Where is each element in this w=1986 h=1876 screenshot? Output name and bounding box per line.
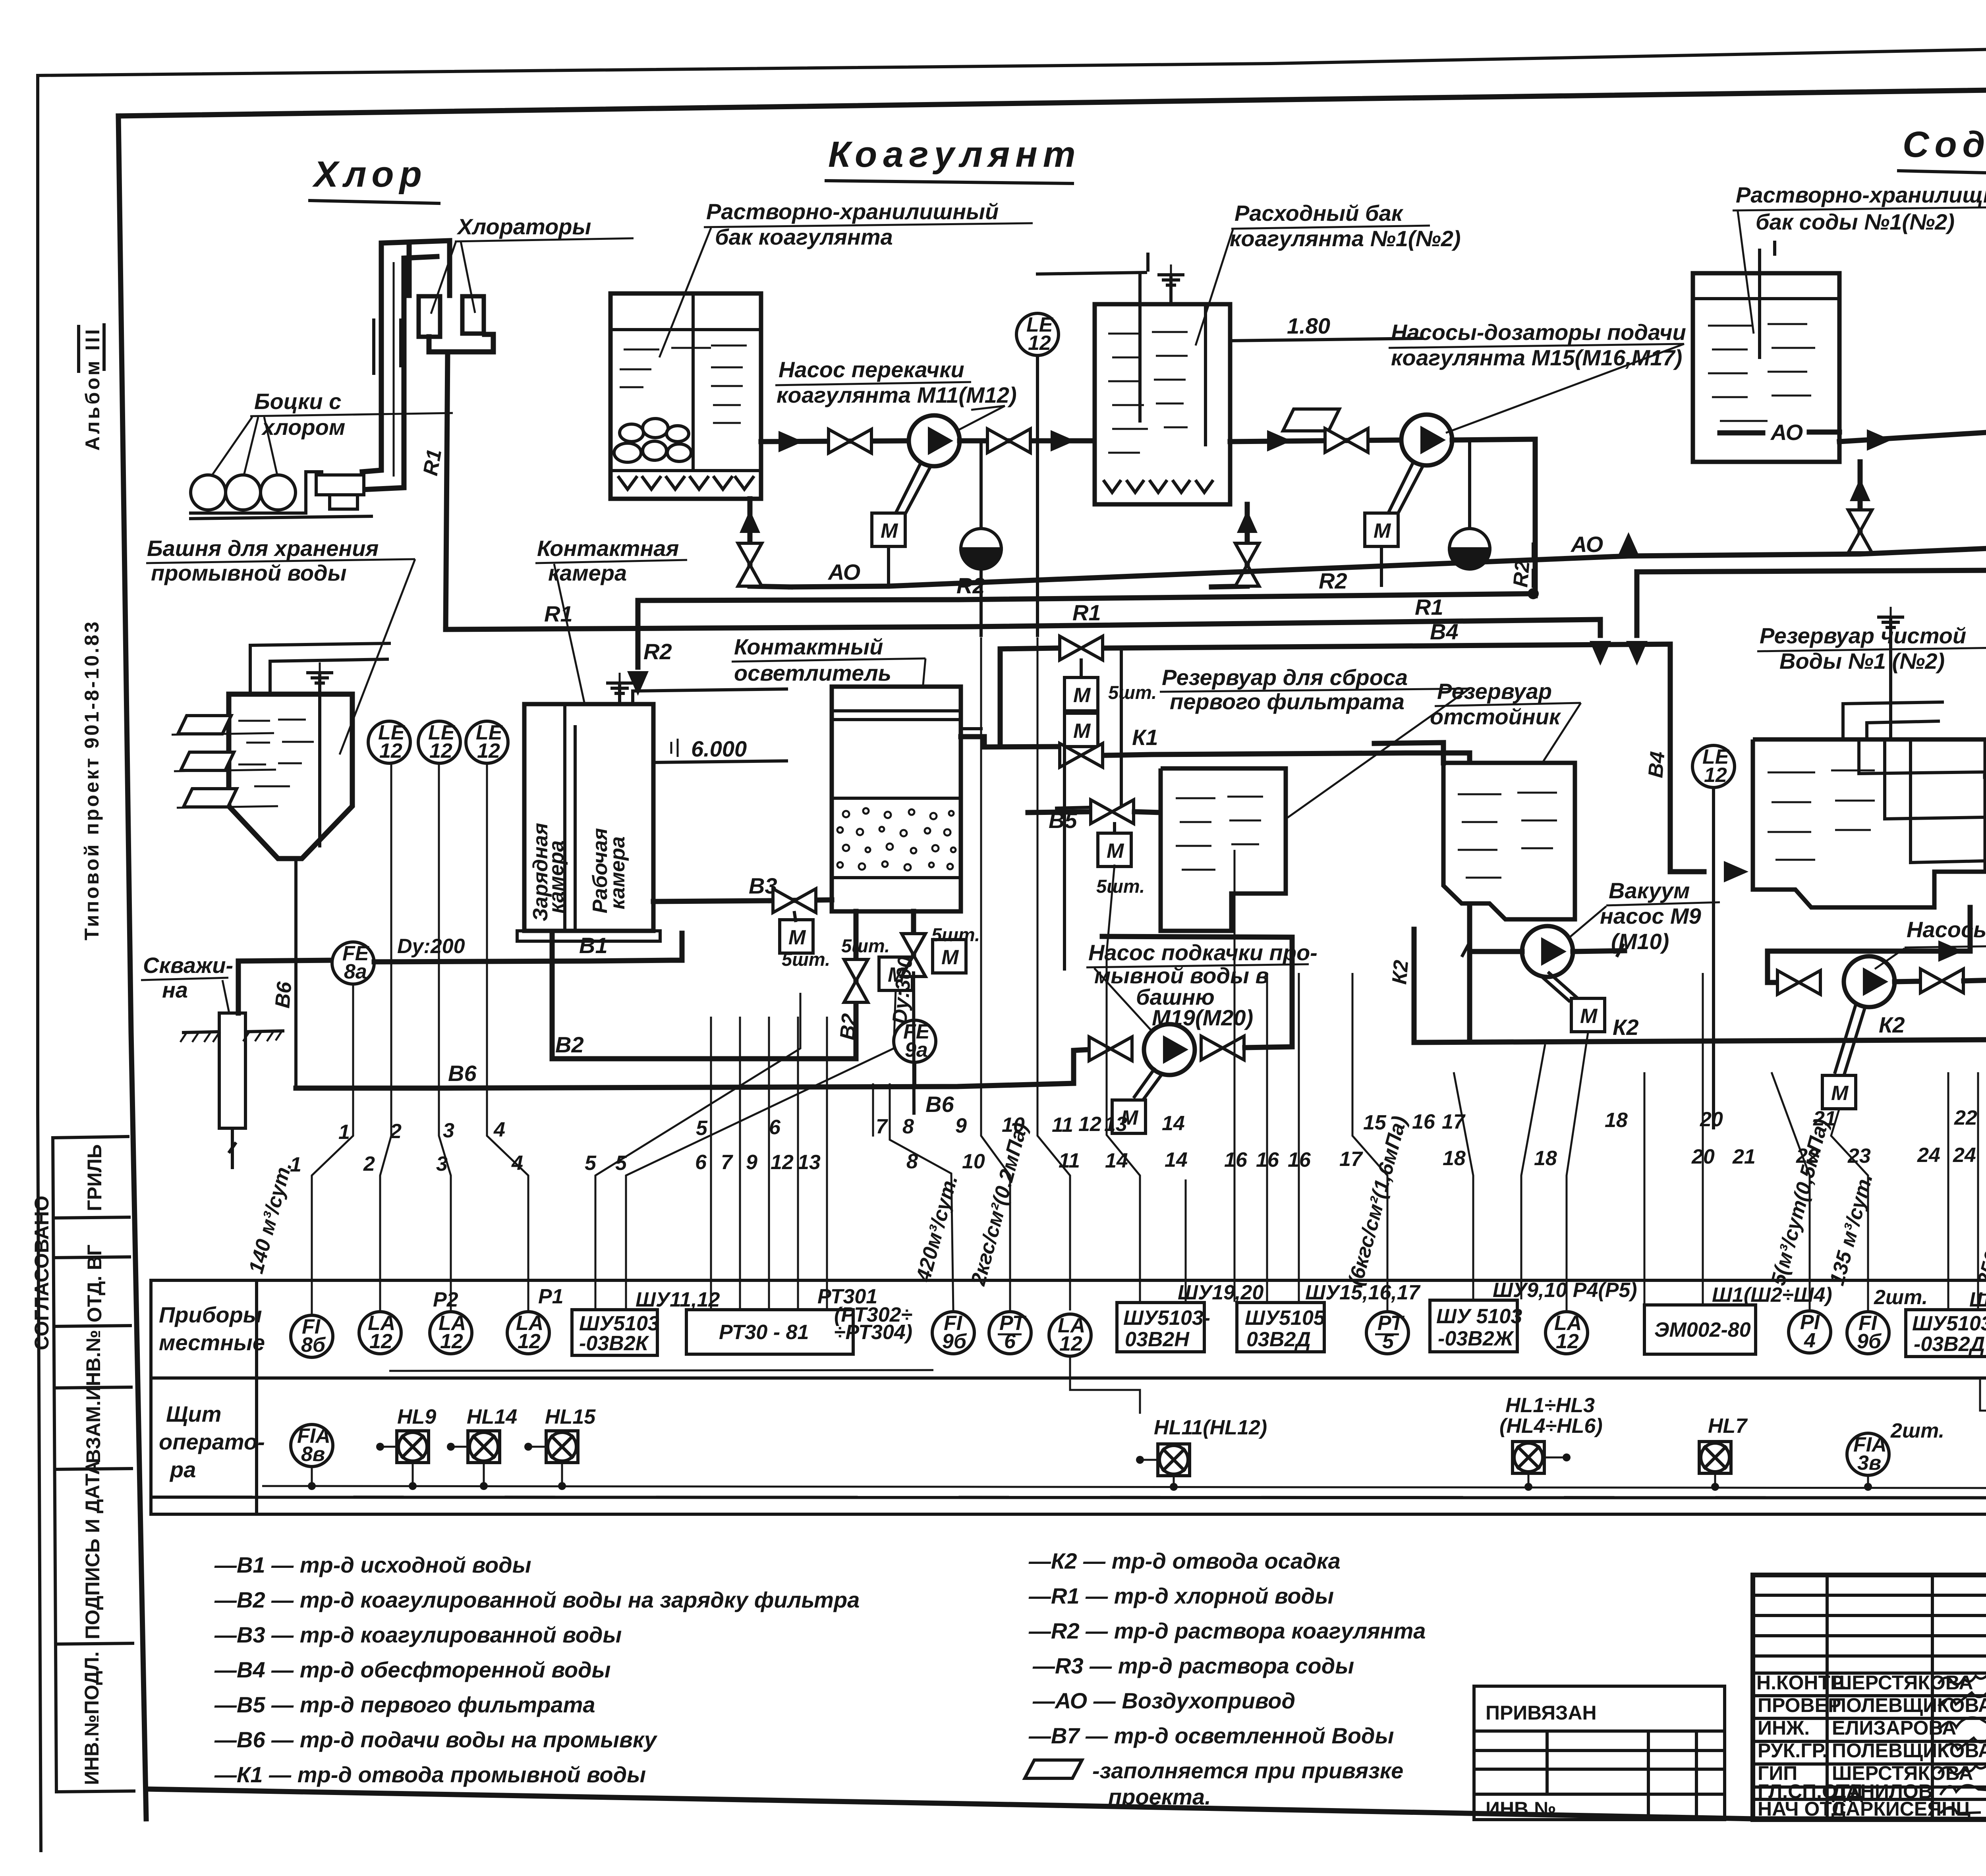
svg-text:5шт.: 5шт.	[931, 924, 980, 945]
svg-text:-03В2Ж: -03В2Ж	[1438, 1327, 1515, 1350]
svg-text:Насос подкачки про-: Насос подкачки про-	[1088, 940, 1318, 965]
svg-text:Насос перекачки: Насос перекачки	[779, 357, 964, 382]
svg-text:9: 9	[955, 1114, 967, 1137]
svg-text:8: 8	[906, 1150, 918, 1173]
svg-text:8а: 8а	[344, 960, 367, 983]
svg-text:Вакуум: Вакуум	[1609, 878, 1690, 903]
svg-text:—К2 — тр-д отвода осадка: —К2 — тр-д отвода осадка	[1028, 1548, 1341, 1573]
svg-text:Насосы-дозаторы подачи: Насосы-дозаторы подачи	[1391, 320, 1686, 345]
svg-text:—АО — Воздухопривод: —АО — Воздухопривод	[1032, 1688, 1295, 1713]
svg-text:15: 15	[1363, 1111, 1387, 1134]
svg-text:R1: R1	[419, 448, 446, 478]
svg-text:6: 6	[769, 1116, 781, 1139]
svg-text:Башня для хранения: Башня для хранения	[147, 536, 379, 561]
svg-text:Щит: Щит	[166, 1401, 221, 1426]
svg-text:В6: В6	[271, 980, 296, 1009]
svg-text:4: 4	[493, 1118, 505, 1141]
svg-text:03В2Н: 03В2Н	[1125, 1328, 1190, 1351]
svg-text:РУК.ГР.: РУК.ГР.	[1758, 1739, 1828, 1762]
svg-text:18: 18	[1534, 1147, 1557, 1170]
svg-text:R1: R1	[544, 601, 573, 626]
svg-text:3: 3	[436, 1152, 448, 1175]
svg-text:Резервуар чистой: Резервуар чистой	[1760, 623, 1966, 648]
svg-text:В1: В1	[579, 933, 608, 958]
svg-text:7: 7	[721, 1151, 733, 1174]
svg-text:6.000: 6.000	[691, 736, 747, 761]
svg-text:HL9: HL9	[397, 1405, 436, 1428]
svg-text:ПОДПИСЬ И ДАТА: ПОДПИСЬ И ДАТА	[81, 1461, 104, 1639]
svg-text:1: 1	[338, 1121, 350, 1144]
svg-text:R1: R1	[1415, 594, 1443, 620]
svg-text:HL11(HL12): HL11(HL12)	[1154, 1416, 1267, 1439]
svg-text:Р1: Р1	[538, 1285, 564, 1308]
svg-text:21: 21	[1732, 1145, 1756, 1168]
svg-text:осветлитель: осветлитель	[734, 660, 891, 685]
svg-text:ОТД. ВГ: ОТД. ВГ	[83, 1245, 106, 1322]
svg-text:ЭМ002-80: ЭМ002-80	[1654, 1318, 1751, 1341]
svg-text:20: 20	[1691, 1145, 1715, 1168]
svg-text:ШУ 5103: ШУ 5103	[1436, 1305, 1522, 1328]
svg-text:5: 5	[615, 1152, 627, 1175]
svg-text:13: 13	[798, 1151, 821, 1174]
svg-text:R1: R1	[1072, 600, 1101, 625]
svg-text:÷РТ304): ÷РТ304)	[834, 1321, 912, 1344]
svg-text:24: 24	[1953, 1144, 1976, 1167]
svg-text:отстойник: отстойник	[1430, 704, 1561, 729]
svg-text:камера: камера	[606, 836, 629, 909]
svg-text:ГРИЛЬ: ГРИЛЬ	[83, 1144, 106, 1211]
svg-text:12: 12	[1059, 1332, 1082, 1355]
svg-text:—R1 — тр-д хлорной воды: —R1 — тр-д хлорной воды	[1028, 1583, 1334, 1608]
svg-text:HL15: HL15	[545, 1405, 596, 1428]
svg-text:К2: К2	[1613, 1015, 1639, 1040]
svg-text:8в: 8в	[301, 1443, 325, 1466]
svg-text:В2: В2	[836, 1013, 861, 1041]
svg-text:Контактная: Контактная	[537, 536, 679, 561]
svg-text:—К1 — тр-д отвода промывной: —К1 — тр-д отвода промывной воды	[214, 1762, 646, 1787]
svg-text:Хлор: Хлор	[312, 154, 427, 195]
svg-text:-03В2Д: -03В2Д	[1914, 1333, 1985, 1356]
svg-text:9б: 9б	[1857, 1330, 1882, 1353]
svg-text:13: 13	[1104, 1113, 1127, 1136]
svg-text:бак соды №1(№2): бак соды №1(№2)	[1756, 209, 1955, 234]
svg-text:16: 16	[1288, 1148, 1311, 1172]
svg-text:Растворно-хранилишный: Растворно-хранилишный	[706, 199, 999, 224]
svg-text:12: 12	[1704, 764, 1727, 787]
svg-text:Насосы М1(М2÷М4): Насосы М1(М2÷М4)	[1907, 917, 1986, 942]
svg-text:5: 5	[696, 1117, 708, 1140]
svg-text:9б: 9б	[942, 1330, 967, 1353]
svg-text:ШУ15,16,17: ШУ15,16,17	[1305, 1281, 1421, 1304]
svg-text:R2: R2	[1509, 560, 1534, 588]
svg-text:АО: АО	[1570, 532, 1603, 557]
svg-text:14: 14	[1162, 1112, 1185, 1135]
svg-text:Боцки с: Боцки с	[254, 389, 341, 414]
svg-text:R2: R2	[1319, 568, 1347, 593]
svg-text:ПРИВЯЗАН: ПРИВЯЗАН	[1486, 1702, 1597, 1724]
svg-text:камера: камера	[548, 560, 627, 585]
svg-text:—В3 — тр-д коагулированной в: —В3 — тр-д коагулированной воды	[214, 1622, 622, 1647]
svg-text:R2: R2	[956, 573, 985, 598]
svg-text:HL7: HL7	[1708, 1415, 1748, 1438]
svg-text:К2: К2	[1388, 959, 1413, 985]
svg-text:12: 12	[440, 1330, 463, 1353]
svg-text:—В7 — тр-д осветленной Воды: —В7 — тр-д осветленной Воды	[1028, 1723, 1394, 1748]
svg-text:на: на	[162, 977, 188, 1002]
svg-text:HL14: HL14	[467, 1405, 517, 1428]
svg-text:хлором: хлором	[261, 415, 345, 440]
svg-text:Хлораторы: Хлораторы	[456, 214, 591, 239]
svg-text:(HL4÷HL6): (HL4÷HL6)	[1499, 1415, 1603, 1438]
svg-text:Резервуар: Резервуар	[1437, 679, 1552, 704]
svg-text:5шт.: 5шт.	[1108, 682, 1157, 703]
svg-text:5: 5	[585, 1152, 597, 1175]
svg-text:В2: В2	[555, 1032, 584, 1057]
svg-text:ра: ра	[169, 1457, 196, 1482]
svg-text:Ш1(Ш2÷Ш4): Ш1(Ш2÷Ш4)	[1712, 1283, 1832, 1307]
svg-text:—В2 — тр-д коагулированной в: —В2 — тр-д коагулированной воды на заряд…	[214, 1587, 860, 1612]
svg-text:2шт.: 2шт.	[1874, 1286, 1928, 1309]
svg-text:Скважи-: Скважи-	[143, 953, 233, 978]
svg-text:12: 12	[379, 739, 402, 762]
svg-text:R2: R2	[643, 639, 672, 664]
svg-text:К1: К1	[1132, 725, 1158, 750]
svg-text:ШУ5103-: ШУ5103-	[1123, 1307, 1210, 1330]
svg-text:первого фильтрата: первого фильтрата	[1170, 689, 1404, 714]
svg-text:23: 23	[1847, 1145, 1871, 1168]
svg-text:В6: В6	[925, 1092, 954, 1117]
svg-text:коагулянта М15(М16,М17): коагулянта М15(М16,М17)	[1391, 345, 1682, 370]
svg-text:проекта.: проекта.	[1108, 1784, 1211, 1809]
svg-text:03В2Д: 03В2Д	[1246, 1328, 1311, 1351]
svg-text:АО: АО	[1770, 420, 1803, 445]
svg-text:17: 17	[1442, 1110, 1466, 1133]
svg-text:—R2 — тр-д раствора коагулянт: —R2 — тр-д раствора коагулянта	[1028, 1618, 1426, 1643]
svg-text:ШУ9,10 Р4(Р5): ШУ9,10 Р4(Р5)	[1493, 1279, 1637, 1302]
svg-text:11: 11	[1052, 1114, 1073, 1137]
svg-text:11: 11	[1059, 1149, 1080, 1172]
svg-text:4: 4	[1804, 1329, 1816, 1352]
svg-text:камера: камера	[545, 840, 568, 913]
svg-text:ШУ5103-: ШУ5103-	[1912, 1312, 1986, 1335]
svg-text:ЕЛИЗАРОВА: ЕЛИЗАРОВА	[1832, 1717, 1956, 1739]
svg-text:—В4 — тр-д обесфторенной вод: —В4 — тр-д обесфторенной воды	[214, 1657, 611, 1682]
svg-text:9: 9	[746, 1151, 757, 1174]
svg-text:ШУ5105: ШУ5105	[1245, 1307, 1325, 1330]
svg-text:Типовой проект 901-8-10.83: Типовой проект 901-8-10.83	[81, 620, 103, 940]
svg-text:12: 12	[1556, 1330, 1579, 1353]
svg-text:операто-: операто-	[159, 1429, 265, 1454]
svg-text:Растворно-хранилищный: Растворно-хранилищный	[1736, 182, 1986, 207]
svg-text:—R3 — тр-д раствора соды: —R3 — тр-д раствора соды	[1032, 1653, 1354, 1678]
svg-text:4: 4	[511, 1152, 523, 1175]
svg-text:промывной воды: промывной воды	[151, 560, 347, 585]
svg-text:16: 16	[1256, 1148, 1279, 1172]
svg-text:20: 20	[1700, 1108, 1723, 1131]
svg-text:12: 12	[477, 739, 500, 762]
svg-text:14: 14	[1165, 1148, 1188, 1172]
svg-text:HL1÷HL3: HL1÷HL3	[1505, 1394, 1595, 1417]
svg-text:РТ30 - 81: РТ30 - 81	[719, 1321, 809, 1344]
svg-text:8б: 8б	[301, 1334, 326, 1357]
svg-text:16: 16	[1412, 1110, 1435, 1133]
svg-text:ИНЖ.: ИНЖ.	[1758, 1717, 1810, 1739]
svg-text:Воды №1 (№2): Воды №1 (№2)	[1779, 648, 1945, 674]
svg-text:ИНВ.№ПОДЛ.: ИНВ.№ПОДЛ.	[81, 1651, 103, 1785]
svg-text:—В5 — тр-д первого фильтрата: —В5 — тр-д первого фильтрата	[214, 1692, 595, 1717]
svg-text:12: 12	[429, 739, 452, 762]
svg-text:10: 10	[962, 1150, 985, 1173]
svg-text:СОГЛАСОВАНО: СОГЛАСОВАНО	[31, 1196, 53, 1350]
svg-text:22: 22	[1954, 1106, 1977, 1129]
svg-text:Р2: Р2	[433, 1288, 458, 1311]
svg-text:коагулянта М11(М12): коагулянта М11(М12)	[777, 382, 1017, 407]
svg-text:К2: К2	[1879, 1012, 1905, 1037]
svg-text:бак коагулянта: бак коагулянта	[715, 224, 893, 249]
svg-text:Коагулянт: Коагулянт	[828, 134, 1081, 175]
svg-text:коагулянта №1(№2): коагулянта №1(№2)	[1230, 226, 1461, 251]
svg-text:Контактный: Контактный	[734, 634, 883, 659]
svg-text:12: 12	[518, 1330, 541, 1353]
svg-text:ШУ11,12: ШУ11,12	[636, 1288, 720, 1311]
svg-text:ШУ19,20: ШУ19,20	[1178, 1281, 1263, 1304]
svg-text:3в: 3в	[1857, 1451, 1881, 1475]
svg-text:насос М9: насос М9	[1600, 903, 1701, 928]
svg-text:2шт.: 2шт.	[1890, 1419, 1944, 1442]
svg-text:5шт.: 5шт.	[782, 949, 830, 970]
svg-text:7: 7	[876, 1115, 888, 1138]
svg-text:ПОЛЕВЩИКОВА: ПОЛЕВЩИКОВА	[1832, 1739, 1986, 1762]
svg-text:ИНВ.№: ИНВ.№	[1486, 1798, 1556, 1820]
svg-text:Сода: Сода	[1903, 124, 1986, 165]
svg-text:2: 2	[390, 1120, 402, 1143]
svg-text:—В6 — тр-д подачи воды на: —В6 — тр-д подачи воды на промывку	[214, 1727, 658, 1752]
svg-text:Расходный бак: Расходный бак	[1234, 201, 1404, 226]
svg-text:5шт.: 5шт.	[841, 935, 890, 956]
svg-text:5шт.: 5шт.	[1096, 876, 1145, 897]
svg-text:12: 12	[771, 1151, 794, 1174]
svg-text:—В1 — тр-д исходной воды: —В1 — тр-д исходной воды	[214, 1552, 531, 1577]
svg-text:2: 2	[363, 1152, 375, 1175]
svg-text:18: 18	[1605, 1109, 1628, 1132]
svg-text:ПРОВЕР: ПРОВЕР	[1758, 1694, 1841, 1716]
svg-text:Резервуар для сброса: Резервуар для сброса	[1162, 665, 1408, 690]
svg-text:8: 8	[902, 1115, 914, 1138]
svg-text:9а: 9а	[905, 1038, 928, 1062]
svg-text:16: 16	[1224, 1148, 1248, 1172]
svg-text:-заполняется при привязке: -заполняется при привязке	[1092, 1758, 1403, 1783]
svg-text:12: 12	[1028, 332, 1051, 355]
svg-text:12: 12	[1078, 1113, 1101, 1136]
svg-text:Альбом III: Альбом III	[81, 327, 104, 451]
svg-text:18: 18	[1443, 1147, 1466, 1170]
svg-text:В6: В6	[448, 1061, 477, 1086]
svg-text:17: 17	[1339, 1148, 1363, 1171]
svg-text:14: 14	[1105, 1149, 1128, 1172]
svg-text:1.80: 1.80	[1287, 313, 1330, 338]
svg-text:Приборы: Приборы	[159, 1302, 262, 1327]
svg-text:Dу:200: Dу:200	[397, 935, 465, 958]
svg-text:АО: АО	[827, 560, 860, 585]
svg-text:ПОЛЕВЩИКОВА: ПОЛЕВЩИКОВА	[1832, 1694, 1986, 1716]
svg-text:В4: В4	[1644, 751, 1669, 779]
svg-text:6: 6	[695, 1151, 707, 1174]
svg-text:3: 3	[443, 1119, 454, 1142]
svg-text:12: 12	[369, 1330, 392, 1353]
svg-text:САРКИСЕЯНЦ: САРКИСЕЯНЦ	[1832, 1798, 1971, 1820]
svg-text:В4: В4	[1430, 619, 1459, 644]
svg-text:24: 24	[1917, 1144, 1940, 1167]
svg-text:местные: местные	[159, 1330, 265, 1355]
svg-text:ВЗАМ.ИНВ.№: ВЗАМ.ИНВ.№	[82, 1330, 104, 1463]
svg-text:-03В2К: -03В2К	[579, 1332, 649, 1355]
